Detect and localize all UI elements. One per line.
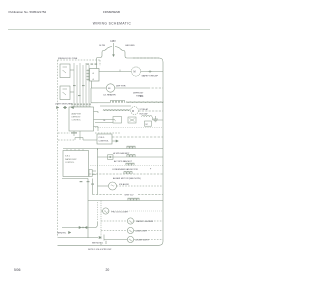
svg-text:SEE NOTE 1: SEE NOTE 1 — [92, 243, 103, 245]
svg-text:DEFROST: DEFROST — [133, 93, 144, 95]
svg-text:Publication No. 5995421752: Publication No. 5995421752 — [9, 10, 47, 14]
svg-text:WATER DISP: WATER DISP — [65, 158, 77, 161]
svg-text:SAFETY RECEP: SAFETY RECEP — [142, 74, 159, 77]
svg-text:AUGER MOTOR (SEE NOTE): AUGER MOTOR (SEE NOTE) — [113, 177, 141, 180]
svg-text:ICE &: ICE & — [65, 156, 71, 158]
svg-text:GRN/YEL: GRN/YEL — [57, 233, 67, 235]
svg-text:ALT SPD FAN MOT: ALT SPD FAN MOT — [114, 160, 133, 163]
svg-text:OL: OL — [103, 120, 106, 122]
svg-text:5/06: 5/06 — [14, 268, 21, 272]
svg-text:COLD: COLD — [99, 137, 105, 139]
svg-text:CUBE LIGHT: CUBE LIGHT — [135, 231, 148, 233]
svg-text:ST RELAY: ST RELAY — [140, 108, 149, 111]
svg-text:CRUSH LIGHT: CRUSH LIGHT — [135, 240, 150, 242]
svg-text:ADAPTIVE: ADAPTIVE — [72, 113, 82, 116]
svg-text:NOTE 1 ICE & WTR DISP: NOTE 1 ICE & WTR DISP — [88, 249, 112, 251]
svg-text:GROUND: GROUND — [125, 45, 135, 47]
svg-text:20: 20 — [106, 268, 110, 272]
svg-text:ICE AUGR: ICE AUGR — [119, 183, 129, 186]
svg-text:10 PIN: 10 PIN — [99, 45, 106, 47]
svg-text:CONTROL: CONTROL — [99, 141, 110, 143]
svg-text:+: + — [92, 78, 94, 82]
svg-text:M: M — [132, 111, 134, 113]
svg-text:LIGHT SWITCHES: LIGHT SWITCHES — [55, 104, 73, 106]
svg-text:FRS6R5ESB: FRS6R5ESB — [103, 10, 120, 14]
svg-text:CONTROL: CONTROL — [72, 120, 81, 122]
svg-text:WIRING SCHEMATIC: WIRING SCHEMATIC — [93, 22, 132, 26]
svg-text:FRESH FOOD ZONE: FRESH FOOD ZONE — [58, 58, 78, 60]
svg-text:115V: 115V — [110, 40, 116, 43]
svg-text:WTR VLV: WTR VLV — [125, 195, 135, 197]
svg-text:+: + — [92, 72, 94, 76]
svg-text:DEFROST: DEFROST — [72, 117, 82, 119]
svg-text:M: M — [134, 71, 136, 74]
svg-text:TIMER: TIMER — [136, 96, 143, 98]
svg-text:DEF HTR: DEF HTR — [116, 86, 126, 88]
svg-text:CONTROL: CONTROL — [65, 162, 74, 164]
svg-text:FRZ COOL LIGHT: FRZ COOL LIGHT — [112, 212, 130, 214]
svg-text:C/L HEATER: C/L HEATER — [103, 94, 116, 97]
svg-text:CONDENSER FAN MOTOR: CONDENSER FAN MOTOR — [112, 168, 138, 171]
svg-text:RUN CAP: RUN CAP — [140, 113, 149, 116]
svg-text:GRN: GRN — [149, 221, 154, 223]
